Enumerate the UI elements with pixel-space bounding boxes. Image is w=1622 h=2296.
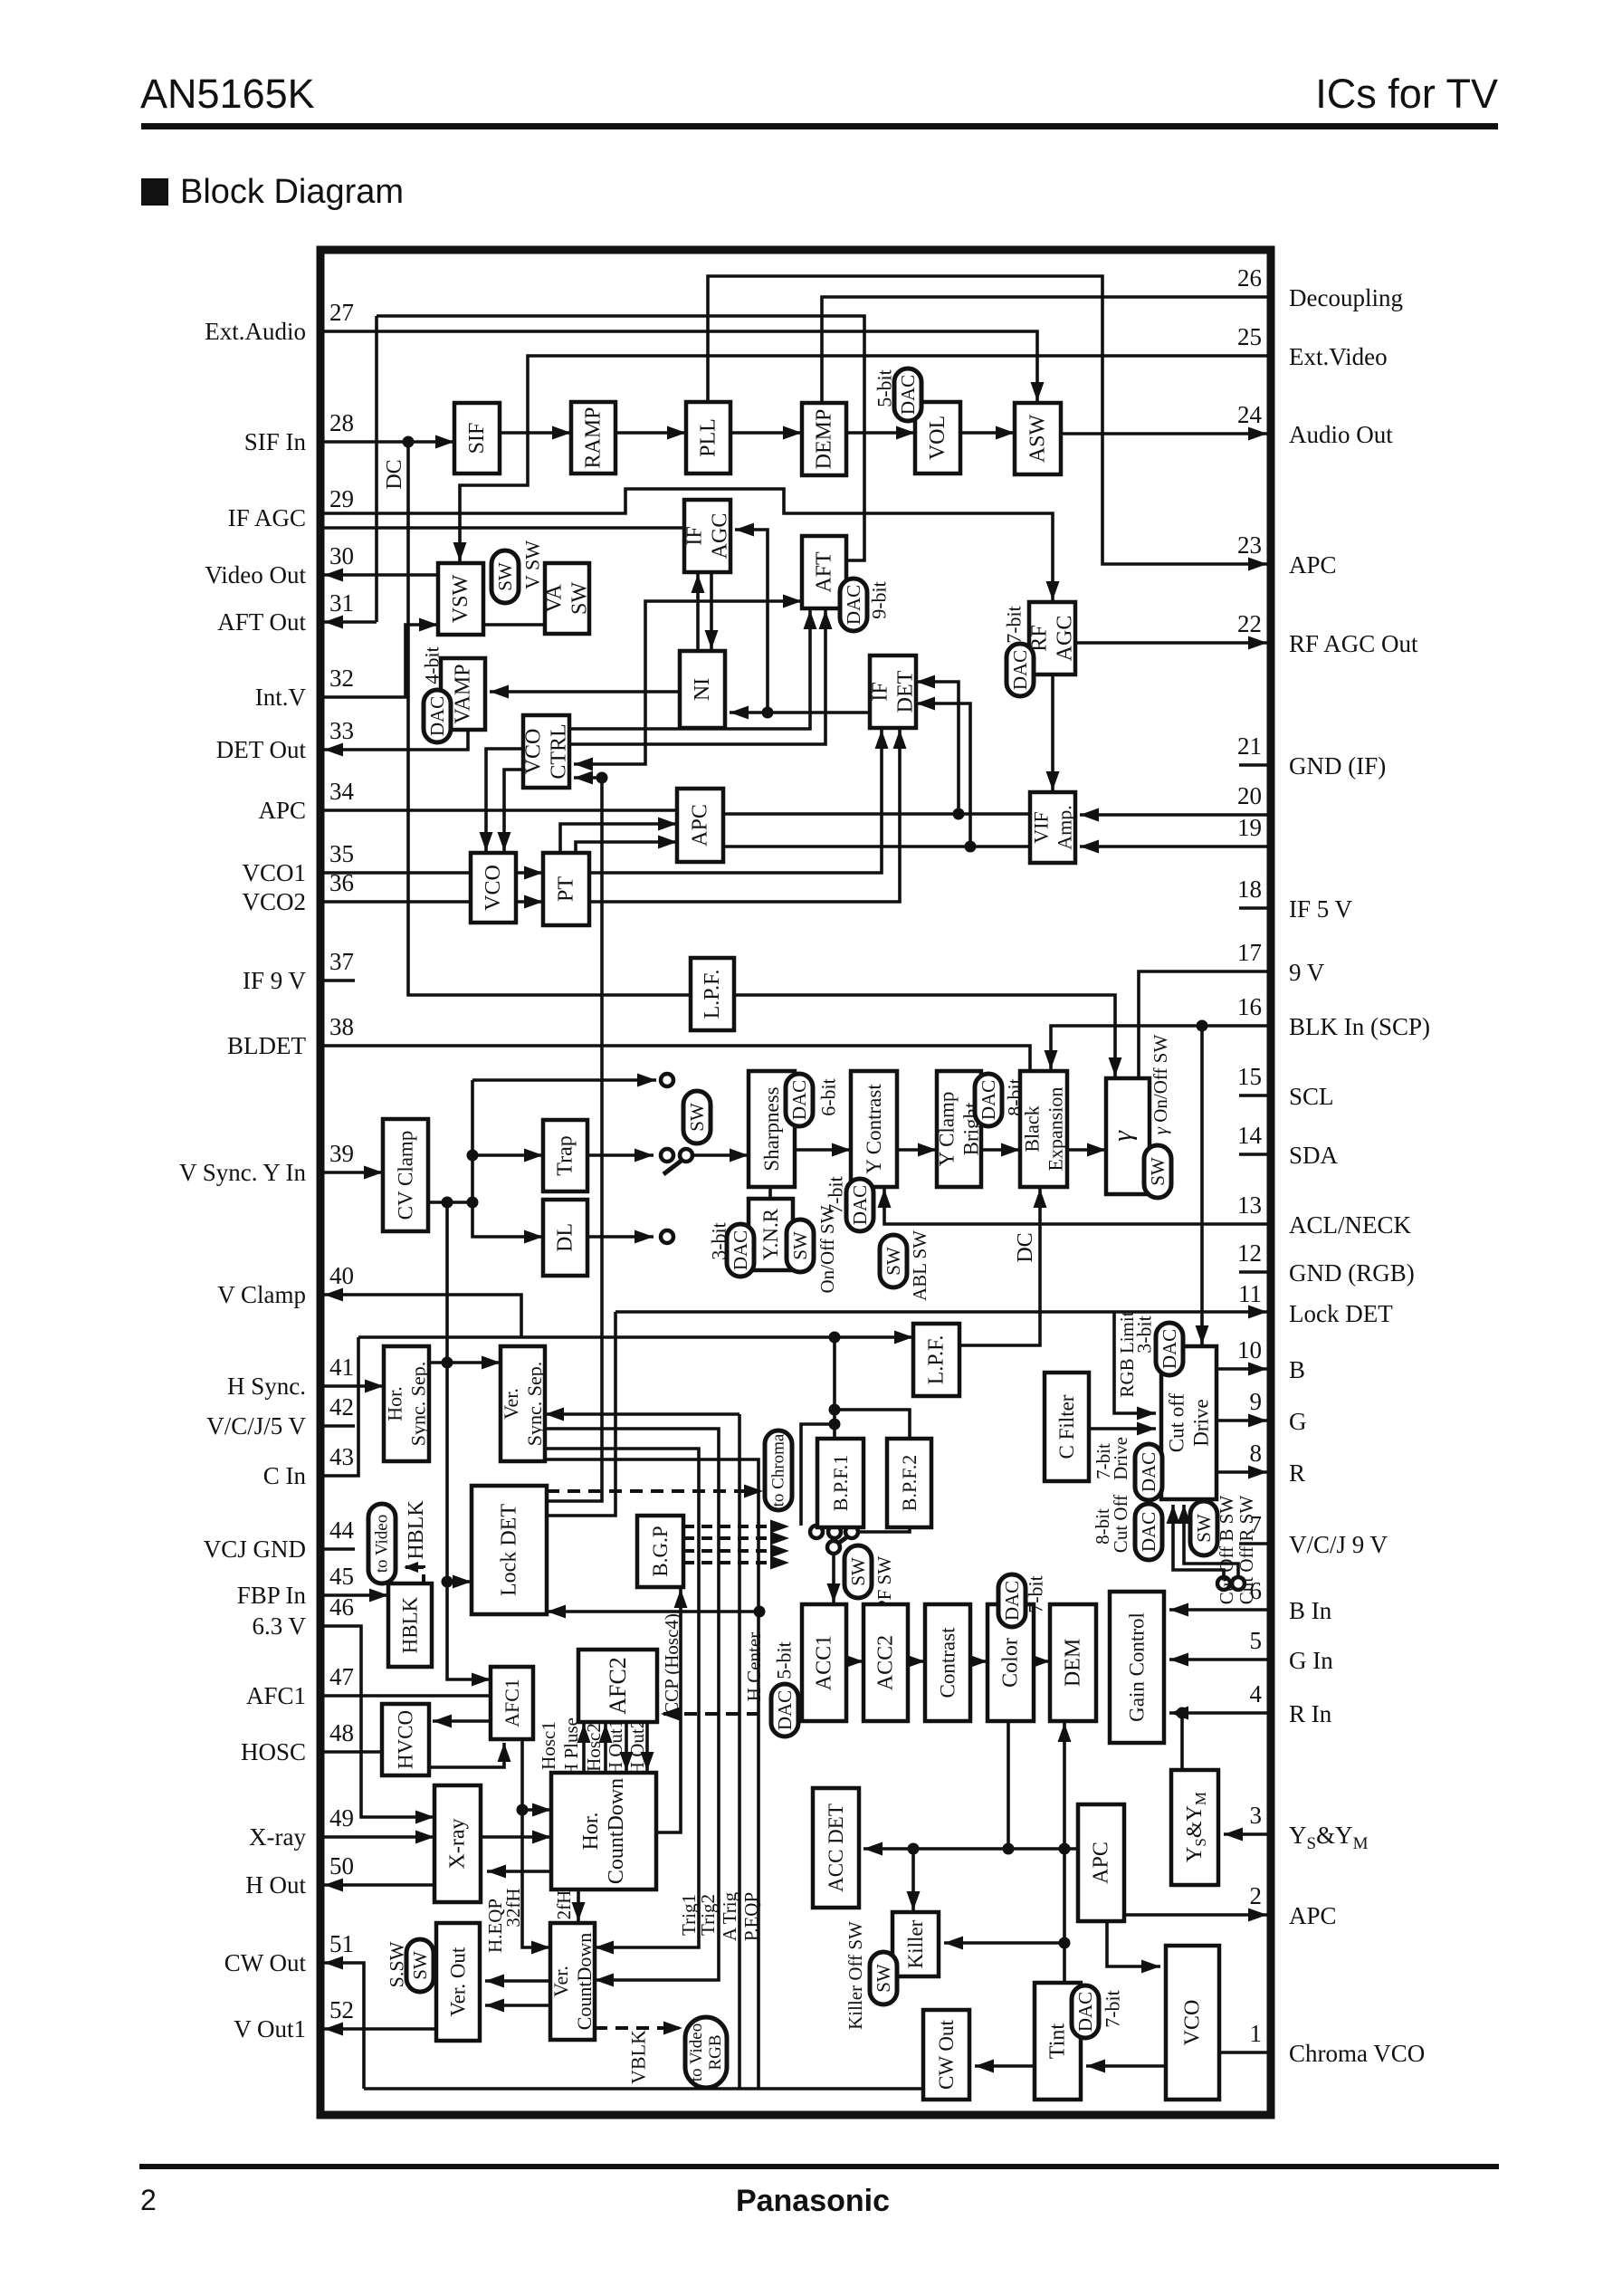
pin 15 stub bbox=[1239, 1094, 1267, 1097]
svg-text:VAMP: VAMP bbox=[452, 664, 475, 723]
svg-text:APC: APC bbox=[1289, 551, 1337, 579]
wire to Killer top bbox=[911, 1849, 915, 1910]
wire DL to switch bbox=[587, 1235, 654, 1239]
wire Tint to CW Out bbox=[975, 2064, 1035, 2068]
wire pin26 Decoupling from DEMP bbox=[822, 297, 1267, 403]
pill DAC cut off bbox=[1135, 1504, 1162, 1560]
wire AFC1 to HVCO bbox=[433, 1719, 491, 1723]
svg-text:Contrast: Contrast bbox=[937, 1627, 959, 1698]
wire ASW to pin24 Audio Out bbox=[1061, 432, 1267, 435]
wire C Filter to Cut off Drive bbox=[1089, 1427, 1156, 1430]
block Killer bbox=[892, 1912, 939, 1976]
pill to Video RGB bbox=[685, 2017, 727, 2088]
wire VCO CTRL to VCO right bbox=[504, 770, 523, 851]
svg-text:Trig2: Trig2 bbox=[697, 1894, 719, 1936]
block Ver Out bbox=[436, 1923, 480, 2041]
svg-text:L.P.F.: L.P.F. bbox=[925, 1335, 949, 1385]
svg-text:APC: APC bbox=[1289, 1902, 1337, 1929]
svg-text:DAC: DAC bbox=[1159, 1329, 1180, 1369]
wire IF AGC to NI down bbox=[710, 572, 713, 649]
svg-text:H Out1: H Out1 bbox=[605, 1719, 626, 1775]
block BGP bbox=[637, 1516, 683, 1587]
svg-text:RGB Limit: RGB Limit bbox=[1116, 1311, 1138, 1397]
svg-text:SW: SW bbox=[409, 1951, 431, 1980]
svg-text:38: 38 bbox=[329, 1013, 354, 1040]
svg-text:2fH: 2fH bbox=[553, 1890, 575, 1920]
pin 21 stub bbox=[1239, 763, 1267, 767]
wire pin52 V Out1 bbox=[324, 2027, 436, 2031]
block Lock DET bbox=[472, 1486, 547, 1614]
wire Hor CountDown to X-ray bbox=[487, 1870, 551, 1873]
svg-text:G: G bbox=[1289, 1408, 1307, 1435]
svg-text:12: 12 bbox=[1237, 1239, 1262, 1267]
switch pivot bbox=[680, 1149, 692, 1162]
svg-text:37: 37 bbox=[329, 948, 354, 975]
wire pin47 AFC1 bbox=[324, 1694, 491, 1698]
block HVCO bbox=[382, 1704, 429, 1775]
wire to IF DET right lower bbox=[916, 703, 970, 847]
svg-text:16: 16 bbox=[1237, 993, 1262, 1020]
svg-text:4: 4 bbox=[1250, 1680, 1263, 1708]
svg-text:Ver. Out: Ver. Out bbox=[447, 1947, 470, 2016]
junction dot CV-video bbox=[467, 1197, 479, 1209]
svg-text:DAC: DAC bbox=[788, 1080, 810, 1120]
svg-text:DEM: DEM bbox=[1062, 1639, 1085, 1687]
svg-text:DAC: DAC bbox=[897, 375, 919, 415]
junction dot APC-VIF upper bbox=[953, 808, 965, 820]
wire Cut off Drive to pin9 G bbox=[1216, 1419, 1267, 1422]
svg-text:40: 40 bbox=[329, 1262, 354, 1289]
block C Filter bbox=[1045, 1373, 1089, 1481]
svg-text:HOSC: HOSC bbox=[241, 1738, 306, 1765]
svg-text:Trap: Trap bbox=[554, 1135, 577, 1175]
wire SIF to RAMP bbox=[500, 431, 571, 435]
svg-text:γ On/Off SW: γ On/Off SW bbox=[1150, 1035, 1171, 1135]
svg-text:APC: APC bbox=[1090, 1842, 1113, 1884]
svg-text:39: 39 bbox=[329, 1140, 354, 1167]
svg-text:to Video: to Video bbox=[687, 2023, 706, 2081]
block CV Clamp bbox=[383, 1119, 428, 1231]
svg-text:DAC: DAC bbox=[426, 696, 448, 736]
svg-text:AFC1: AFC1 bbox=[246, 1682, 306, 1709]
wire VCO CTRL out1 to AFT bottom bbox=[569, 610, 810, 729]
pill SW YNR bbox=[787, 1220, 814, 1272]
wire AFC1 down to countdowns bbox=[522, 1739, 550, 1947]
svg-text:VIF: VIF bbox=[1030, 811, 1053, 843]
svg-text:13: 13 bbox=[1237, 1191, 1262, 1219]
wire Ver Sync input bbox=[545, 1412, 739, 1416]
svg-text:7-bit: 7-bit bbox=[1003, 606, 1026, 644]
wire pin48 HOSC bbox=[324, 1750, 382, 1754]
wire pin41 H Sync bbox=[324, 1384, 384, 1388]
wire pin33 DET Out from VAMP bbox=[324, 730, 468, 750]
wire node to VCO CTRL upper and AFT bbox=[574, 601, 802, 764]
junction dot killer line bbox=[1059, 1937, 1071, 1949]
svg-text:SIF In: SIF In bbox=[244, 428, 307, 455]
block VSW bbox=[438, 563, 483, 635]
junction dot IF DET-NI bbox=[762, 707, 774, 719]
svg-text:H Center: H Center bbox=[743, 1632, 765, 1701]
pill SW cut off drive bbox=[1190, 1501, 1217, 1555]
svg-text:Panasonic: Panasonic bbox=[736, 2184, 890, 2218]
svg-text:CountDown: CountDown bbox=[605, 1778, 628, 1884]
wire VCO CTRL to VCO left bbox=[486, 749, 523, 851]
svg-text:4-bit: 4-bit bbox=[421, 646, 444, 684]
pill DAC Sharpness bbox=[786, 1074, 813, 1126]
block RF AGC bbox=[1029, 602, 1075, 674]
svg-text:Y.N.R: Y.N.R bbox=[759, 1208, 782, 1260]
wire Contrast to Color bbox=[970, 1660, 988, 1663]
wire Y Contrast to Y Clamp bbox=[897, 1148, 937, 1152]
svg-text:AN5165K: AN5165K bbox=[140, 71, 315, 117]
dashed wire BGP out3 bbox=[683, 1549, 780, 1553]
svg-text:PLL: PLL bbox=[697, 418, 720, 457]
block AFC1 bbox=[491, 1667, 533, 1739]
junction dot BLK In bbox=[1197, 1020, 1208, 1032]
wire Ver Sync out Trig1 bbox=[545, 1449, 699, 1947]
wire pin17 9V to gamma bbox=[1139, 971, 1267, 1078]
wire pin43 C In to bus bbox=[324, 1337, 358, 1476]
wire chroma bypass bbox=[801, 1424, 835, 1526]
junction dot AFC1-HorCD bbox=[517, 1804, 529, 1816]
pill to Video bbox=[368, 1504, 396, 1583]
switch lever bbox=[663, 1160, 682, 1174]
svg-text:DAC: DAC bbox=[730, 1230, 751, 1270]
svg-text:10: 10 bbox=[1237, 1336, 1262, 1363]
svg-text:45: 45 bbox=[329, 1563, 354, 1590]
pill SW video switch bbox=[683, 1091, 711, 1143]
pill to Chroma bbox=[765, 1430, 792, 1510]
wire RGB limit to Cut off Drive bbox=[1114, 1312, 1156, 1413]
svg-text:24: 24 bbox=[1237, 401, 1263, 428]
wire ACC2 to Contrast bbox=[908, 1660, 925, 1663]
svg-text:14: 14 bbox=[1237, 1122, 1263, 1149]
svg-text:19: 19 bbox=[1237, 814, 1262, 841]
wire Sharpness to Y Contrast bbox=[795, 1148, 851, 1152]
svg-text:Cut Off B SW: Cut Off B SW bbox=[1216, 1496, 1237, 1605]
svg-text:DC: DC bbox=[1014, 1232, 1037, 1262]
junction dot killer branch bbox=[908, 1843, 920, 1855]
svg-text:P.EQP: P.EQP bbox=[740, 1892, 762, 1941]
wire video node to VCO CTRL lower bbox=[574, 776, 602, 780]
wire pin30 Video Out bbox=[324, 573, 438, 577]
svg-text:H Out2: H Out2 bbox=[626, 1719, 648, 1775]
svg-text:8-bit: 8-bit bbox=[1004, 1078, 1026, 1116]
svg-text:On/Off SW: On/Off SW bbox=[816, 1205, 838, 1293]
wire APC to VCO bbox=[1107, 1921, 1160, 1966]
svg-text:52: 52 bbox=[329, 1996, 354, 2023]
block PLL bbox=[686, 402, 730, 474]
pill SW VSW bbox=[491, 550, 519, 603]
svg-text:Int.V: Int.V bbox=[255, 684, 307, 711]
block DEMP bbox=[802, 403, 846, 475]
pin 14 stub bbox=[1239, 1153, 1267, 1156]
wire PLL to DEMP bbox=[730, 431, 802, 435]
svg-text:A Trig: A Trig bbox=[719, 1891, 740, 1941]
svg-text:to Chroma: to Chroma bbox=[769, 1433, 788, 1507]
svg-text:SW: SW bbox=[1147, 1157, 1169, 1186]
block VOL bbox=[915, 402, 960, 474]
svg-text:IF 9 V: IF 9 V bbox=[243, 967, 307, 994]
svg-text:S.SW: S.SW bbox=[386, 1941, 408, 1987]
wire pin45 FBP In to HBLK bbox=[324, 1593, 388, 1597]
wire RAMP to PLL bbox=[615, 431, 686, 435]
svg-text:RF AGC Out: RF AGC Out bbox=[1289, 630, 1418, 657]
dashed wire BGP out2 bbox=[683, 1536, 780, 1540]
svg-text:ABL SW: ABL SW bbox=[909, 1230, 930, 1301]
wire video select vertical bbox=[472, 1080, 543, 1237]
svg-text:11: 11 bbox=[1238, 1280, 1262, 1307]
wire Black Expansion to gamma bbox=[1067, 1148, 1106, 1152]
svg-text:C In: C In bbox=[263, 1462, 307, 1489]
svg-text:SW: SW bbox=[568, 582, 592, 615]
wire top bus to AFT right bbox=[377, 316, 864, 560]
wire BPF2 out bbox=[860, 1527, 910, 1532]
wire pin3 to Ys&Ym bbox=[1224, 1832, 1267, 1836]
block Y Contrast bbox=[851, 1071, 897, 1187]
svg-text:Sync. Sep.: Sync. Sep. bbox=[523, 1362, 546, 1447]
block PT bbox=[543, 853, 589, 925]
pin 37 stub bbox=[324, 979, 355, 982]
wire Ver Sync vertical A bbox=[738, 1414, 741, 2089]
svg-text:7-bit: 7-bit bbox=[1025, 1575, 1047, 1613]
svg-text:DAC: DAC bbox=[1138, 1512, 1159, 1552]
svg-text:V Clamp: V Clamp bbox=[217, 1281, 306, 1308]
wire Color to DEM bbox=[1034, 1660, 1050, 1663]
svg-text:IF: IF bbox=[869, 682, 892, 701]
junction dot SIF In bbox=[403, 436, 415, 448]
svg-text:VCO: VCO bbox=[522, 729, 546, 775]
block APC chroma bbox=[1078, 1804, 1124, 1921]
junction dot Trap feed bbox=[467, 1150, 479, 1162]
svg-text:IF AGC: IF AGC bbox=[228, 504, 306, 531]
svg-text:Y Clamp: Y Clamp bbox=[936, 1092, 959, 1167]
svg-text:51: 51 bbox=[329, 1930, 354, 1957]
svg-text:L.P.F.: L.P.F. bbox=[701, 970, 724, 1019]
block SIF bbox=[454, 403, 500, 474]
wire ACC1 to ACC2 bbox=[846, 1660, 863, 1663]
block Black Expansion bbox=[1020, 1071, 1067, 1187]
wire pin49 X-ray bbox=[324, 1835, 434, 1839]
svg-text:GND (RGB): GND (RGB) bbox=[1289, 1259, 1415, 1287]
svg-text:VOL: VOL bbox=[926, 416, 949, 460]
heading Block Diagram bbox=[141, 178, 168, 206]
pill DAC VAMP bbox=[424, 690, 451, 742]
svg-text:DET Out: DET Out bbox=[216, 736, 307, 763]
wire clamp bus to L.P.F.2 bbox=[358, 1335, 913, 1339]
svg-text:ICs for TV: ICs for TV bbox=[1315, 71, 1498, 117]
svg-text:CTRL: CTRL bbox=[548, 723, 571, 779]
svg-text:CW Out: CW Out bbox=[224, 1949, 307, 1976]
svg-text:Sync. Sep.: Sync. Sep. bbox=[407, 1362, 430, 1447]
block ACC2 bbox=[863, 1604, 908, 1721]
block Ver Sync Sep bbox=[501, 1346, 545, 1461]
svg-text:50: 50 bbox=[329, 1852, 354, 1880]
svg-text:5-bit: 5-bit bbox=[773, 1641, 796, 1679]
svg-text:9-bit: 9-bit bbox=[868, 581, 891, 619]
junction dot BPF2 feed bbox=[829, 1404, 841, 1416]
switch pivot BPF bbox=[827, 1541, 840, 1554]
pill SW BPF bbox=[844, 1545, 872, 1598]
svg-text:V SW: V SW bbox=[521, 541, 544, 589]
wire pin4 R In to Gain Control bbox=[1169, 1711, 1267, 1715]
pill SW ABL bbox=[880, 1235, 907, 1287]
svg-text:27: 27 bbox=[329, 299, 354, 326]
svg-text:Killer Off SW: Killer Off SW bbox=[844, 1921, 866, 2030]
svg-text:32fH: 32fH bbox=[502, 1888, 524, 1927]
svg-text:HBLK: HBLK bbox=[405, 1500, 428, 1560]
svg-text:25: 25 bbox=[1237, 323, 1262, 350]
svg-text:X-ray: X-ray bbox=[446, 1819, 470, 1870]
wire Color bottom bbox=[1007, 1721, 1010, 1849]
junction dot APC-VIF lower bbox=[965, 841, 977, 853]
svg-text:Chroma VCO: Chroma VCO bbox=[1289, 2040, 1425, 2067]
switch contact BPF1 bbox=[828, 1526, 841, 1538]
svg-text:Sharpness: Sharpness bbox=[760, 1086, 783, 1171]
header rule bbox=[141, 123, 1498, 129]
wire pin29 to IF AGC block bbox=[324, 526, 684, 530]
wire DEM bottom to Tint bbox=[1063, 1723, 1066, 1983]
pill DAC ACC1 bbox=[771, 1684, 798, 1736]
pill SW gamma bbox=[1144, 1145, 1171, 1198]
svg-text:Ext.Video: Ext.Video bbox=[1289, 343, 1388, 370]
svg-text:to Video: to Video bbox=[373, 1515, 392, 1573]
wire CV Clamp output bbox=[428, 1201, 472, 1204]
wire VCO to PT lower bbox=[516, 900, 543, 904]
wire Cut off Drive to pin8 R bbox=[1216, 1470, 1267, 1474]
block Trap bbox=[543, 1120, 587, 1191]
footer rule bbox=[139, 2164, 1499, 2169]
svg-text:SW: SW bbox=[883, 1247, 904, 1276]
svg-text:H Out: H Out bbox=[245, 1871, 306, 1899]
svg-text:AFT: AFT bbox=[813, 551, 836, 593]
block RAMP bbox=[571, 402, 615, 474]
wire pin29 IF AGC to RF AGC top bbox=[324, 489, 1053, 602]
svg-text:49: 49 bbox=[329, 1804, 354, 1832]
wire Sharpness to Y.N.R bbox=[768, 1187, 772, 1199]
svg-text:VCO2: VCO2 bbox=[242, 888, 306, 915]
svg-text:Drive: Drive bbox=[1110, 1437, 1131, 1480]
wire to Hor CountDown bbox=[522, 1808, 551, 1812]
wire node to IF AGC right bbox=[735, 530, 768, 713]
pill SW S.SW bbox=[406, 1939, 434, 1992]
svg-text:GND (IF): GND (IF) bbox=[1289, 752, 1386, 780]
svg-text:VSW: VSW bbox=[449, 574, 472, 623]
wire R In branch to Ys&Ym bbox=[1180, 1713, 1184, 1770]
block ACC DET bbox=[813, 1788, 859, 1908]
svg-text:7-bit: 7-bit bbox=[1102, 1990, 1124, 2028]
svg-text:R: R bbox=[1289, 1459, 1305, 1487]
wire cut off B SW bbox=[1173, 1505, 1224, 1577]
block Ver CountDown bbox=[550, 1923, 595, 2040]
svg-text:30: 30 bbox=[329, 542, 354, 569]
svg-text:H Sync.: H Sync. bbox=[227, 1373, 306, 1400]
wire Hor CountDown to BGP bbox=[656, 1589, 681, 1832]
pill DAC AFT bbox=[840, 579, 867, 631]
wire DC line to L.P.F. bbox=[408, 442, 691, 995]
wire Lock DET to bus bbox=[547, 1312, 615, 1516]
block Contrast bbox=[925, 1604, 970, 1721]
svg-text:3-bit: 3-bit bbox=[708, 1222, 730, 1260]
wire Hosc2 up bbox=[604, 1724, 607, 1773]
junction dot DEM branch bbox=[1059, 1843, 1071, 1855]
block APC IF bbox=[677, 789, 723, 862]
block Gain Control bbox=[1110, 1592, 1164, 1743]
dashed wire HBLK to Video bbox=[405, 1567, 424, 1583]
svg-text:Cut Off R SW: Cut Off R SW bbox=[1236, 1496, 1257, 1605]
wire pin36 VCO2 bbox=[324, 900, 471, 904]
block CW Out bbox=[923, 2010, 969, 2100]
svg-text:DAC: DAC bbox=[849, 1185, 871, 1225]
block VIF Amp bbox=[1030, 792, 1075, 863]
svg-text:CV Clamp: CV Clamp bbox=[395, 1131, 417, 1220]
wire NI to IF AGC up bbox=[696, 574, 700, 651]
wire VCO to PT upper bbox=[516, 871, 543, 875]
block NI bbox=[680, 651, 725, 728]
svg-text:26: 26 bbox=[1237, 264, 1262, 292]
svg-text:AFT Out: AFT Out bbox=[217, 608, 306, 636]
svg-text:NI: NI bbox=[691, 678, 714, 701]
svg-text:DAC: DAC bbox=[1138, 1452, 1159, 1492]
svg-text:Decoupling: Decoupling bbox=[1289, 284, 1403, 311]
wire 2fH down bbox=[577, 1889, 580, 1921]
switch contact BPF2 bbox=[845, 1526, 858, 1538]
wire pin50 H Out bbox=[324, 1883, 434, 1887]
wire pin20 to VIF right bbox=[1080, 813, 1267, 817]
svg-text:DAC: DAC bbox=[774, 1690, 796, 1730]
svg-text:Hosc1: Hosc1 bbox=[538, 1721, 559, 1770]
svg-text:RAMP: RAMP bbox=[582, 407, 606, 468]
wire Ver Sync out PEQP bbox=[545, 1459, 759, 2089]
wire X-ray to Hor CountDown bbox=[481, 1835, 551, 1839]
svg-text:AFC1: AFC1 bbox=[501, 1679, 523, 1727]
svg-text:5-bit: 5-bit bbox=[873, 369, 896, 407]
svg-text:8: 8 bbox=[1250, 1440, 1263, 1467]
svg-text:V/C/J/5 V: V/C/J/5 V bbox=[206, 1412, 306, 1440]
svg-text:APC: APC bbox=[689, 804, 712, 847]
svg-text:2: 2 bbox=[140, 2184, 157, 2216]
svg-text:Lock DET: Lock DET bbox=[498, 1504, 521, 1596]
svg-text:DC: DC bbox=[383, 459, 406, 489]
svg-text:23: 23 bbox=[1237, 531, 1262, 559]
svg-text:31: 31 bbox=[329, 589, 354, 617]
svg-text:Cut off: Cut off bbox=[1166, 1392, 1188, 1452]
dashed wire BGP out4 bbox=[683, 1561, 780, 1564]
pill DAC RF AGC bbox=[1007, 644, 1034, 696]
junction dot clamp bus bbox=[829, 1332, 841, 1344]
svg-text:20: 20 bbox=[1237, 782, 1262, 809]
wire pin5 G In to Gain Control bbox=[1169, 1658, 1267, 1661]
svg-text:γ: γ bbox=[1108, 1130, 1138, 1142]
svg-text:AGC: AGC bbox=[709, 513, 732, 560]
svg-text:SW: SW bbox=[1193, 1514, 1215, 1543]
svg-text:ASW: ASW bbox=[1026, 414, 1050, 463]
svg-text:SCL: SCL bbox=[1289, 1083, 1334, 1110]
svg-text:Block Diagram: Block Diagram bbox=[180, 173, 404, 211]
svg-text:41: 41 bbox=[329, 1354, 354, 1381]
wire pin28 SIF In bbox=[324, 440, 454, 444]
junction dot video node bbox=[596, 772, 608, 784]
block HBLK bbox=[388, 1583, 432, 1667]
svg-text:PT: PT bbox=[555, 876, 578, 902]
wire VCO CTRL out2 to AFT bottom bbox=[569, 610, 825, 744]
wire VCO to Tint bbox=[1086, 2064, 1166, 2068]
wire DEMP to VOL bbox=[846, 431, 915, 435]
wire to BPF2 top bbox=[835, 1410, 910, 1439]
wire APC to VIF upper bbox=[723, 812, 1030, 816]
svg-text:DAC: DAC bbox=[1074, 1992, 1096, 2032]
dashed wire VBLK bbox=[595, 2026, 679, 2030]
